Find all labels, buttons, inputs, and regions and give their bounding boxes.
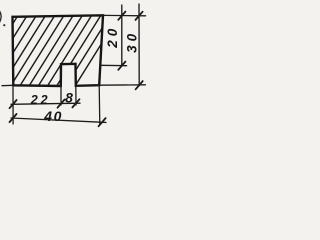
tick at 30-line top	[136, 12, 143, 20]
extension line: notch right wall down	[75, 86, 77, 105]
dimension line 20 (vertical)	[121, 5, 123, 66]
extension line: bottom edge to right	[99, 84, 145, 86]
svg-text:20: 20	[105, 25, 120, 49]
tick at 22-line left	[10, 100, 17, 108]
tick at 40-line left	[10, 114, 17, 122]
svg-text:22: 22	[30, 93, 51, 107]
extension line: left edge down	[12, 87, 14, 124]
tick between 22 and 8	[58, 100, 65, 108]
figure label ")" (cropped at left edge)	[0, 10, 5, 27]
tick at 20-line bottom	[118, 62, 125, 70]
tick at 8-line right	[72, 99, 79, 107]
hatching of section	[0, 13, 121, 88]
dimension line 22/8 (horizontal)	[11, 103, 80, 104]
dimension line 30 (vertical)	[138, 4, 140, 86]
tick at 30-line bottom	[136, 81, 143, 89]
extension line: right edge down	[98, 85, 101, 124]
extension line: top edge to right	[103, 14, 146, 16]
tick at 20-line top	[118, 12, 125, 20]
svg-text:30: 30	[125, 30, 140, 53]
extension line: bottom edge overshoot left	[2, 84, 13, 86]
extension line: notch left wall down	[60, 86, 62, 105]
svg-text:40: 40	[43, 108, 63, 124]
part outline (section with bottom notch)	[13, 15, 104, 86]
dimension line 40 (horizontal)	[11, 118, 106, 122]
extension line: notch top level to right	[101, 64, 127, 66]
tick at 40-line right	[99, 118, 106, 126]
svg-text:8: 8	[65, 89, 73, 105]
